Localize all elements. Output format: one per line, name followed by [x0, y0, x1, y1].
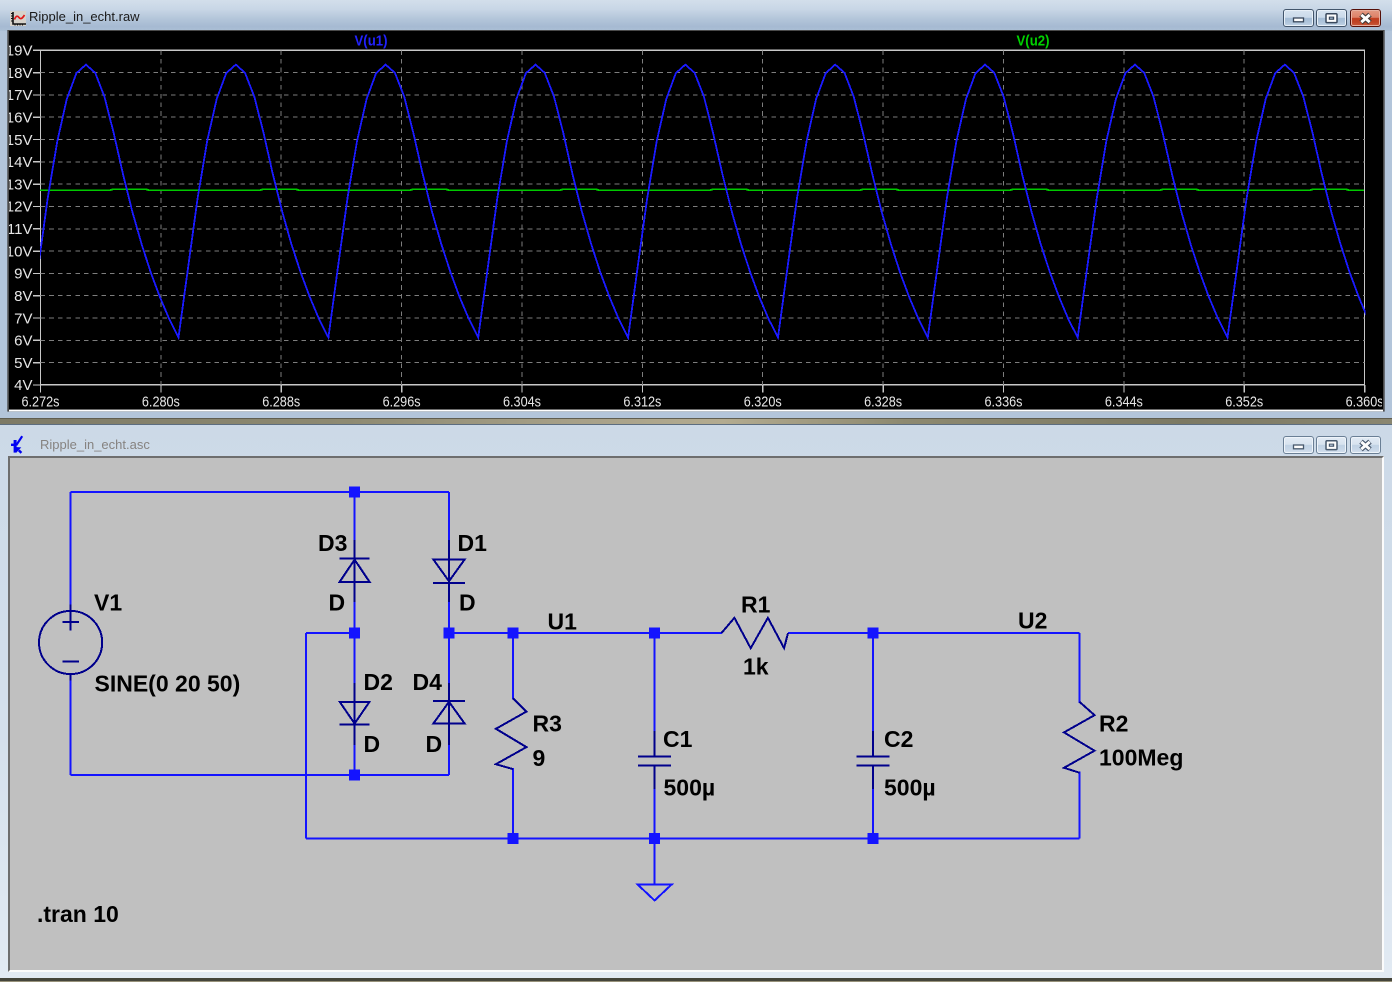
svg-text:500µ: 500µ — [664, 775, 716, 801]
svg-text:U1: U1 — [548, 609, 578, 635]
svg-text:500µ: 500µ — [884, 775, 936, 801]
svg-text:6.280s: 6.280s — [142, 394, 180, 411]
svg-text:4V: 4V — [14, 377, 32, 394]
svg-text:V(u2): V(u2) — [1017, 33, 1050, 50]
svg-text:12V: 12V — [6, 199, 33, 216]
svg-text:SINE(0 20 50): SINE(0 20 50) — [95, 671, 241, 697]
svg-text:D2: D2 — [364, 669, 393, 695]
svg-text:D: D — [426, 731, 443, 757]
svg-text:100Meg: 100Meg — [1099, 745, 1183, 771]
svg-text:6.272s: 6.272s — [22, 394, 60, 411]
svg-text:6.296s: 6.296s — [383, 394, 421, 411]
svg-text:D4: D4 — [413, 669, 443, 695]
svg-text:10V: 10V — [6, 243, 33, 260]
svg-text:V1: V1 — [94, 590, 122, 616]
svg-text:6.288s: 6.288s — [262, 394, 300, 411]
svg-text:9V: 9V — [14, 266, 32, 283]
svg-text:19V: 19V — [6, 43, 33, 60]
svg-text:D3: D3 — [318, 530, 347, 556]
svg-text:6.360s: 6.360s — [1346, 394, 1384, 411]
svg-text:6.352s: 6.352s — [1225, 394, 1263, 411]
svg-text:1k: 1k — [743, 654, 769, 680]
svg-text:16V: 16V — [6, 110, 33, 127]
svg-text:14V: 14V — [6, 154, 33, 171]
svg-text:11V: 11V — [7, 221, 33, 238]
svg-text:D: D — [364, 731, 381, 757]
svg-text:R1: R1 — [741, 592, 771, 618]
svg-text:6.328s: 6.328s — [864, 394, 902, 411]
svg-text:.tran 10: .tran 10 — [37, 901, 119, 927]
svg-text:C1: C1 — [663, 726, 693, 752]
svg-text:6V: 6V — [14, 333, 32, 350]
svg-text:D: D — [459, 590, 476, 616]
svg-text:V(u1): V(u1) — [355, 33, 388, 50]
svg-text:6.312s: 6.312s — [623, 394, 661, 411]
svg-text:9: 9 — [533, 745, 546, 771]
svg-text:7V: 7V — [14, 310, 32, 327]
svg-text:18V: 18V — [6, 65, 33, 82]
svg-text:R3: R3 — [533, 711, 562, 737]
svg-text:U2: U2 — [1018, 608, 1047, 634]
svg-text:5V: 5V — [14, 355, 32, 372]
svg-text:13V: 13V — [6, 176, 33, 193]
svg-text:6.304s: 6.304s — [503, 394, 541, 411]
svg-text:15V: 15V — [6, 132, 33, 149]
svg-text:6.320s: 6.320s — [744, 394, 782, 411]
svg-text:6.344s: 6.344s — [1105, 394, 1143, 411]
svg-text:8V: 8V — [14, 288, 32, 305]
svg-text:C2: C2 — [884, 726, 913, 752]
svg-text:17V: 17V — [6, 87, 33, 104]
svg-text:D1: D1 — [458, 530, 488, 556]
svg-text:6.336s: 6.336s — [985, 394, 1023, 411]
svg-text:D: D — [329, 590, 346, 616]
svg-text:R2: R2 — [1099, 711, 1128, 737]
